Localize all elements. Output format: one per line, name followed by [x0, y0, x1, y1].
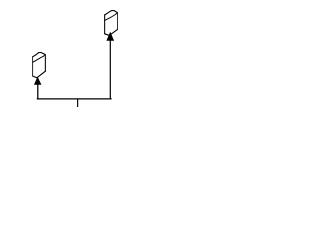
wire right riser	[109, 40, 111, 99]
3d box right (front-top slant)	[105, 13, 118, 21]
3d box left (left edge)	[32, 57, 34, 76]
3d box left (front-top slant)	[33, 55, 45, 63]
wire horizontal bus	[37, 98, 111, 100]
3d box right (right edge)	[117, 13, 119, 30]
wire left riser	[37, 84, 39, 99]
3d box left (roof)	[33, 53, 45, 57]
wire center stem	[77, 99, 79, 108]
3d box left (bottom edges)	[33, 71, 46, 78]
3d box right (left edge)	[104, 15, 106, 34]
arrowhead left	[34, 77, 42, 85]
3d box right (bottom edges)	[105, 30, 118, 36]
arrowhead right	[106, 32, 114, 41]
3d box left (right edge)	[44, 55, 46, 72]
3d box right (roof)	[105, 11, 117, 15]
